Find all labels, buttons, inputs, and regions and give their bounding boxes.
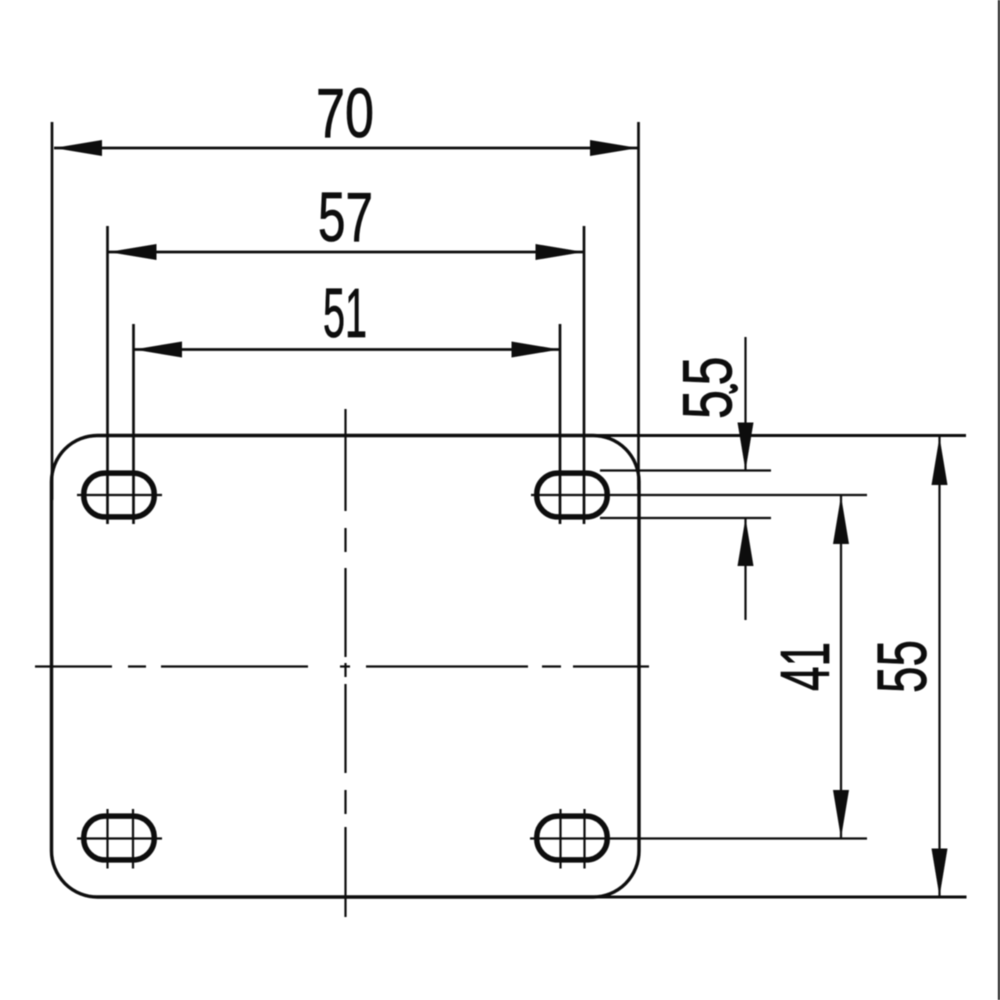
- arrow 41 up: [833, 496, 849, 544]
- svg-text:70: 70: [316, 74, 374, 152]
- arrow 5,5 up: [738, 518, 754, 566]
- svg-text:5: 5: [669, 357, 747, 386]
- extension line 57 left (through top-left hole): [106, 226, 109, 524]
- dimension line 5,5 upper segment: [744, 337, 746, 471]
- comma of label 5,5: [729, 384, 738, 394]
- dimension line 5,5 lower segment: [744, 518, 746, 620]
- crosshair horizontal hole bottom-left: [77, 837, 162, 839]
- dimension line 55: [938, 437, 940, 897]
- hole bottom-left: [84, 816, 154, 860]
- extension line 55 bottom (plate bottom edge extended): [590, 896, 967, 899]
- extension line 41 top (crosshair top-right hole extended): [531, 494, 867, 496]
- svg-text:5: 5: [669, 390, 747, 419]
- extension line 55 top (plate top edge extended): [590, 434, 966, 437]
- centerline vertical (dash-dot): [344, 409, 346, 917]
- dimension line 57: [108, 251, 584, 254]
- dimension line 51: [134, 348, 560, 351]
- arrow 5,5 down: [738, 423, 754, 471]
- arrow 55 up: [932, 437, 948, 485]
- hole top-right: [537, 473, 607, 517]
- arrow 51 right: [512, 342, 560, 358]
- crosshair horizontal hole top-left: [77, 494, 162, 496]
- extension line 5,5 top (hole top edge extended): [600, 469, 771, 471]
- svg-text:41: 41: [766, 642, 844, 691]
- arrow 57 left: [109, 244, 157, 260]
- plate outline: [52, 436, 640, 898]
- extension line 70 left: [51, 122, 54, 500]
- extension line 41 bottom (crosshair bottom-right hole extended): [530, 837, 867, 839]
- extension line 70 right: [637, 122, 640, 490]
- extension line 5,5 bottom (hole bottom edge extended): [600, 517, 771, 519]
- svg-text:51: 51: [323, 274, 367, 352]
- svg-text:57: 57: [318, 178, 373, 256]
- svg-text:55: 55: [863, 640, 941, 693]
- extension line 51 right (through top-right hole): [559, 324, 562, 524]
- arrow 57 right: [536, 244, 584, 260]
- arrow 70 right: [590, 140, 638, 156]
- crosshair verticals hole bottom-right: [559, 809, 561, 869]
- scan edge artifact right border: [998, 0, 1000, 1000]
- arrow 70 left: [54, 140, 102, 156]
- hole top-left: [84, 473, 154, 517]
- arrow 51 left: [134, 342, 182, 358]
- arrow 55 down: [932, 849, 948, 897]
- centerline horizontal (dash-dot): [35, 665, 649, 667]
- crosshair verticals hole bottom-left: [106, 809, 108, 869]
- label 5,5 (rotated): [669, 357, 747, 420]
- arrow 41 down: [833, 790, 849, 838]
- extension line 57 right (through top-right hole): [583, 226, 586, 524]
- dimension line 70: [54, 147, 638, 150]
- dimension line 41: [840, 496, 842, 838]
- hole bottom-right: [537, 816, 607, 860]
- extension line 51 left (through top-left hole): [132, 324, 135, 524]
